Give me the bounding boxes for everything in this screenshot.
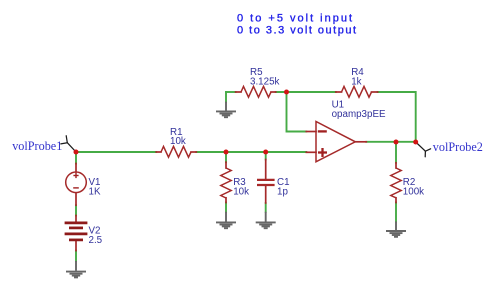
svg-text:volProbe1: volProbe1 [12, 139, 62, 153]
svg-text:3.125k: 3.125k [250, 76, 280, 87]
svg-text:1k: 1k [351, 76, 361, 87]
svg-text:0 to +5 volt input: 0 to +5 volt input [237, 13, 354, 25]
svg-text:volProbe2: volProbe2 [433, 140, 483, 154]
svg-text:1K: 1K [89, 186, 101, 197]
svg-text:0 to 3.3 volt output: 0 to 3.3 volt output [237, 25, 358, 37]
svg-text:10k: 10k [233, 186, 249, 197]
svg-text:2.5: 2.5 [89, 235, 103, 246]
svg-text:10k: 10k [170, 136, 186, 147]
svg-text:opamp3pEE: opamp3pEE [332, 109, 386, 120]
svg-text:100k: 100k [403, 186, 424, 197]
svg-text:1p: 1p [277, 186, 288, 197]
